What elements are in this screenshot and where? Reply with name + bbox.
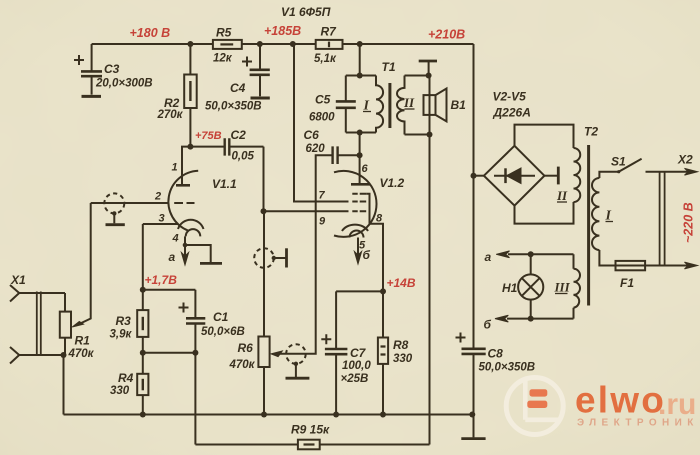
capacitor C6 <box>333 146 360 164</box>
svg-text:б: б <box>363 248 371 262</box>
svg-text:50,0×6В: 50,0×6В <box>201 326 245 338</box>
resistor R7 <box>316 40 343 49</box>
resistor R9 <box>195 440 429 450</box>
ground (shield 3) <box>286 377 310 380</box>
lamp H1 <box>518 254 573 318</box>
svg-text:6: 6 <box>362 163 369 175</box>
svg-text:C6: C6 <box>304 128 320 142</box>
svg-text:V1.2: V1.2 <box>380 176 405 190</box>
heater arrow b (to H1) <box>507 318 531 320</box>
svg-text:+185В: +185В <box>264 24 301 38</box>
shielded wire (V1.1 grid) <box>104 193 124 223</box>
svg-text:C1: C1 <box>213 310 229 324</box>
resistor R5 <box>213 40 242 49</box>
ground (shield V1.1) <box>106 223 125 226</box>
svg-text:elwo: elwo <box>575 380 666 421</box>
svg-text:3,9к: 3,9к <box>110 329 133 341</box>
svg-text:F1: F1 <box>620 276 634 290</box>
ground (C4) <box>251 97 270 100</box>
svg-text:7: 7 <box>319 190 326 202</box>
svg-text:3: 3 <box>159 213 165 225</box>
svg-text:+210В: +210В <box>428 28 465 42</box>
svg-text:R5: R5 <box>216 26 232 40</box>
wire: R3/R4 junction to C1 <box>143 352 196 354</box>
shielded wire (wiper) <box>286 344 306 377</box>
connector X2 <box>645 168 697 269</box>
svg-text:C4: C4 <box>230 81 246 95</box>
svg-text:а: а <box>485 250 492 264</box>
svg-text:R6: R6 <box>238 341 254 355</box>
svg-text:50,0×350В: 50,0×350В <box>205 101 262 113</box>
svg-text:C5: C5 <box>315 93 331 107</box>
svg-text:S1: S1 <box>611 155 626 169</box>
wire: screen grid +185V to pin 7 <box>294 44 349 202</box>
svg-text:C2: C2 <box>231 128 247 142</box>
svg-text:V1.1: V1.1 <box>212 177 237 191</box>
red voltage labels <box>130 24 696 290</box>
ground (C8 / bus end) <box>461 437 485 440</box>
svg-text:470к: 470к <box>68 348 95 360</box>
fuse F1 <box>616 261 646 270</box>
svg-text:H1: H1 <box>502 281 518 295</box>
elwo.ru logo <box>506 378 699 435</box>
svg-text:20,0×300В: 20,0×300В <box>95 78 153 90</box>
triode V1.1 <box>91 147 204 245</box>
svg-text:II: II <box>556 188 568 203</box>
wire: X1 ground drop <box>63 355 65 415</box>
pentode V1.2 <box>334 133 383 292</box>
svg-text:R2: R2 <box>164 96 180 110</box>
transformer T2 winding III <box>574 254 581 318</box>
capacitor C8 <box>456 333 486 438</box>
svg-text:C7: C7 <box>350 346 367 360</box>
transformer T2 winding I <box>592 172 619 266</box>
svg-text:X1: X1 <box>10 273 26 287</box>
svg-text:330: 330 <box>393 353 413 365</box>
svg-text:T2: T2 <box>584 125 598 139</box>
svg-text:×25В: ×25В <box>341 373 369 385</box>
svg-text:X2: X2 <box>677 153 693 167</box>
ground (bridge minus, side bar) <box>557 167 560 185</box>
svg-text:270к: 270к <box>157 109 184 121</box>
connector X1 <box>10 285 65 364</box>
svg-text:B1: B1 <box>451 98 467 112</box>
capacitor C7 <box>321 291 383 414</box>
wire: C1 bottom to R9 <box>194 353 196 445</box>
svg-text:330: 330 <box>110 385 130 397</box>
svg-text:а: а <box>169 250 176 264</box>
roman numeral underlines <box>363 109 613 294</box>
transformer T1 <box>336 44 430 135</box>
ground (shield 2, side bar) <box>285 248 288 267</box>
svg-text:ЭЛЕКТРОНИК: ЭЛЕКТРОНИК <box>577 418 699 429</box>
svg-text:R3: R3 <box>116 314 132 328</box>
svg-text:.ru: .ru <box>658 388 696 421</box>
svg-text:6800: 6800 <box>309 112 335 124</box>
resistor R8 <box>378 291 388 414</box>
svg-text:2: 2 <box>154 191 161 203</box>
svg-text:~220 В: ~220 В <box>682 202 696 243</box>
svg-text:8: 8 <box>376 213 383 225</box>
resistor R6 (grid, with wiper) <box>258 211 348 414</box>
capacitor C3 <box>74 44 102 95</box>
svg-text:5,1к: 5,1к <box>314 53 337 65</box>
svg-text:+180 В: +180 В <box>130 26 171 40</box>
transformer T2 winding II <box>574 148 581 202</box>
svg-text:100,0: 100,0 <box>342 360 371 372</box>
svg-text:620: 620 <box>306 143 326 155</box>
svg-text:C3: C3 <box>104 62 120 76</box>
svg-text:470к: 470к <box>229 359 256 371</box>
resistor R4 <box>137 353 148 415</box>
R6 wiper and feedback via C6 <box>271 155 332 356</box>
diode bridge V2-V5 <box>474 125 574 224</box>
wire: speaker/feedback vertical <box>429 135 431 445</box>
svg-text:T1: T1 <box>382 60 396 74</box>
wire: C2 to pin 9 node <box>263 147 265 212</box>
svg-text:V2-V5: V2-V5 <box>493 90 527 104</box>
svg-text:R7: R7 <box>321 25 338 39</box>
svg-text:12к: 12к <box>213 53 233 65</box>
svg-text:9: 9 <box>319 216 326 228</box>
svg-text:C8: C8 <box>488 347 504 361</box>
svg-text:50,0×350В: 50,0×350В <box>479 362 536 374</box>
svg-text:R8: R8 <box>393 338 409 352</box>
svg-text:R9 15к: R9 15к <box>291 423 330 437</box>
svg-text:+14В: +14В <box>387 276 416 290</box>
wire: V1.1 cathode to +1.7V node <box>143 224 196 290</box>
svg-text:б: б <box>484 318 492 332</box>
svg-text:Д226А: Д226А <box>493 106 531 120</box>
speaker B1 <box>424 76 447 135</box>
capacitor C4 <box>242 44 270 96</box>
svg-text:V1 6Ф5П: V1 6Ф5П <box>281 5 331 19</box>
resistor R2 <box>184 44 197 147</box>
svg-text:+75В: +75В <box>195 130 222 142</box>
shielded wire (grid V1.2) <box>254 248 285 268</box>
capacitor C2 <box>190 138 263 155</box>
ground (above speaker) <box>419 61 437 76</box>
svg-text:+1,7В: +1,7В <box>145 273 178 287</box>
svg-text:0,05: 0,05 <box>232 151 255 163</box>
svg-text:4: 4 <box>172 233 179 245</box>
svg-text:III: III <box>554 280 571 295</box>
heater tap b (V1.2) <box>354 238 361 265</box>
svg-text:R1: R1 <box>75 334 91 348</box>
wire: +210V vertical <box>473 44 475 349</box>
transformer T2 core <box>587 145 590 306</box>
potentiometer R1 <box>60 203 91 355</box>
ground (C3) <box>82 95 102 98</box>
ground (V1.1 heater) <box>200 262 222 265</box>
svg-text:II: II <box>403 95 415 110</box>
heater tap a (V1.1) <box>181 243 210 265</box>
svg-text:1: 1 <box>172 162 178 174</box>
switch S1 <box>617 159 641 173</box>
resistor R3 <box>137 290 148 353</box>
wire: ground bus <box>64 414 473 416</box>
svg-text:R4: R4 <box>118 371 134 385</box>
heater arrow a (to H1) <box>508 253 531 255</box>
capacitor C1 <box>179 290 206 353</box>
wire: main +180/+185/+210 top rail <box>92 43 474 45</box>
